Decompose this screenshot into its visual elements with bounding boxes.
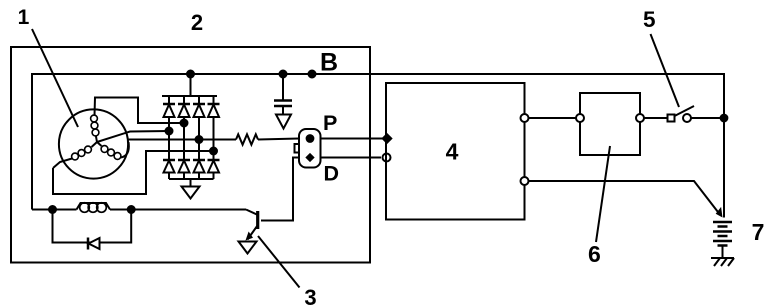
node bridge column3 tap bbox=[196, 136, 203, 143]
wire box6 to switch bbox=[644, 117, 668, 119]
stator winding phase V (lower-left) bbox=[53, 142, 97, 168]
indicator box 6 bbox=[580, 93, 640, 155]
connector pin D bbox=[305, 153, 314, 162]
node field right bbox=[128, 206, 135, 213]
stator neutral lead bbox=[97, 131, 169, 142]
diode D8 (bottom, col4) bbox=[208, 160, 220, 179]
svg-text:4: 4 bbox=[446, 139, 459, 165]
svg-text:7: 7 bbox=[752, 219, 765, 245]
flyback diode VD bbox=[88, 238, 100, 250]
battery GB 7 bbox=[713, 222, 732, 258]
svg-text:B: B bbox=[320, 49, 338, 77]
leader line to 6 bbox=[596, 146, 610, 242]
leader line to 3 bbox=[258, 236, 300, 288]
terminal box4 right bottom bbox=[521, 177, 529, 185]
wire phase U to bridge column 2 bbox=[95, 98, 185, 124]
diode D4 (top, col4) bbox=[208, 96, 220, 159]
node B terminal bbox=[309, 71, 316, 78]
regulator box 4 bbox=[386, 83, 525, 220]
diode D7 (bottom, col3) bbox=[193, 160, 205, 179]
diode D5 (bottom, col1) bbox=[163, 160, 175, 179]
transistor Q1 collector bbox=[246, 210, 258, 215]
svg-text:3: 3 bbox=[304, 285, 316, 307]
diode D6 (bottom, col2) bbox=[178, 160, 190, 179]
node bridge column1 tap bbox=[166, 128, 173, 135]
svg-text:D: D bbox=[324, 162, 340, 186]
rectifier bridge stem bbox=[190, 74, 192, 96]
switch S5 moving contact bbox=[683, 114, 691, 122]
svg-text:2: 2 bbox=[191, 10, 203, 35]
alternator housing box 2 bbox=[11, 47, 370, 263]
wire B rail bbox=[32, 74, 724, 218]
connector pin P bbox=[307, 135, 314, 142]
leader line to 5 bbox=[651, 34, 680, 107]
node bridge column4 tap bbox=[210, 148, 217, 155]
terminal box4 right top bbox=[521, 114, 529, 122]
switch S5 fixed contact bbox=[668, 115, 675, 122]
wire phase W to bridge column 3 and P terminal bbox=[129, 139, 237, 141]
wire D to transistor base bbox=[261, 158, 299, 221]
ground (battery, chassis) bbox=[711, 258, 734, 266]
battery feed arrowhead bbox=[716, 207, 723, 218]
wire field winding to transistor collector bbox=[110, 209, 246, 211]
node P input (arrow into box 4) bbox=[381, 133, 392, 144]
leader line to 1 bbox=[32, 29, 78, 127]
transistor Q1 emitter bbox=[248, 226, 258, 240]
wire resistor to connector P bbox=[258, 139, 299, 140]
svg-text:6: 6 bbox=[588, 241, 601, 267]
wire phase V detour to bridge column 4 bbox=[53, 151, 214, 194]
stator circle G1 bbox=[59, 109, 128, 178]
svg-text:5: 5 bbox=[643, 7, 656, 32]
ground (capacitor) bbox=[276, 115, 291, 129]
terminal D input (open circle) bbox=[383, 154, 391, 162]
rectifier bridge bottom bus bbox=[169, 178, 214, 180]
terminal box6 left bbox=[576, 114, 584, 122]
wire D to regulator box 4 bbox=[321, 157, 382, 159]
connector X1 body bbox=[299, 129, 321, 168]
svg-text:P: P bbox=[323, 111, 337, 135]
stator winding phase W (lower-right) bbox=[97, 142, 129, 159]
ground (transistor emitter) bbox=[239, 242, 257, 254]
node bridge column2 tap bbox=[181, 120, 188, 127]
wire P to regulator box 4 bbox=[321, 138, 387, 140]
wire switch to battery rail bbox=[691, 117, 724, 119]
transistor Q1 emitter arrow bbox=[246, 232, 254, 241]
diode D3 (top, col3) bbox=[193, 96, 205, 159]
wire box4 bottom to battery bbox=[529, 181, 720, 214]
node capacitor tap bbox=[280, 71, 287, 78]
terminal box6 right bbox=[636, 114, 644, 122]
flyback diode VD branch wire bbox=[53, 210, 132, 243]
ground (bridge) bbox=[182, 179, 200, 199]
svg-text:1: 1 bbox=[18, 6, 30, 29]
wire box4 to box6 bbox=[529, 117, 577, 119]
node battery rail junction bbox=[721, 115, 728, 122]
connector X1 latch tab bbox=[295, 144, 300, 153]
rectifier bridge top bus bbox=[162, 95, 217, 97]
diode D2 (top, col2) bbox=[178, 96, 190, 159]
stator winding phase U (up) bbox=[91, 115, 99, 142]
node bridge top tap bbox=[187, 71, 194, 78]
diode D1 (top, col1) bbox=[163, 96, 175, 159]
rotor field winding L1 lead wire bbox=[32, 209, 77, 211]
capacitor C1 bbox=[274, 74, 292, 115]
rotor field winding L1 coil bbox=[77, 203, 111, 213]
switch S5 lever bbox=[675, 106, 695, 116]
transistor Q1 base bar bbox=[256, 211, 259, 229]
node field left bbox=[49, 206, 56, 213]
resistor R1 bbox=[236, 134, 258, 144]
